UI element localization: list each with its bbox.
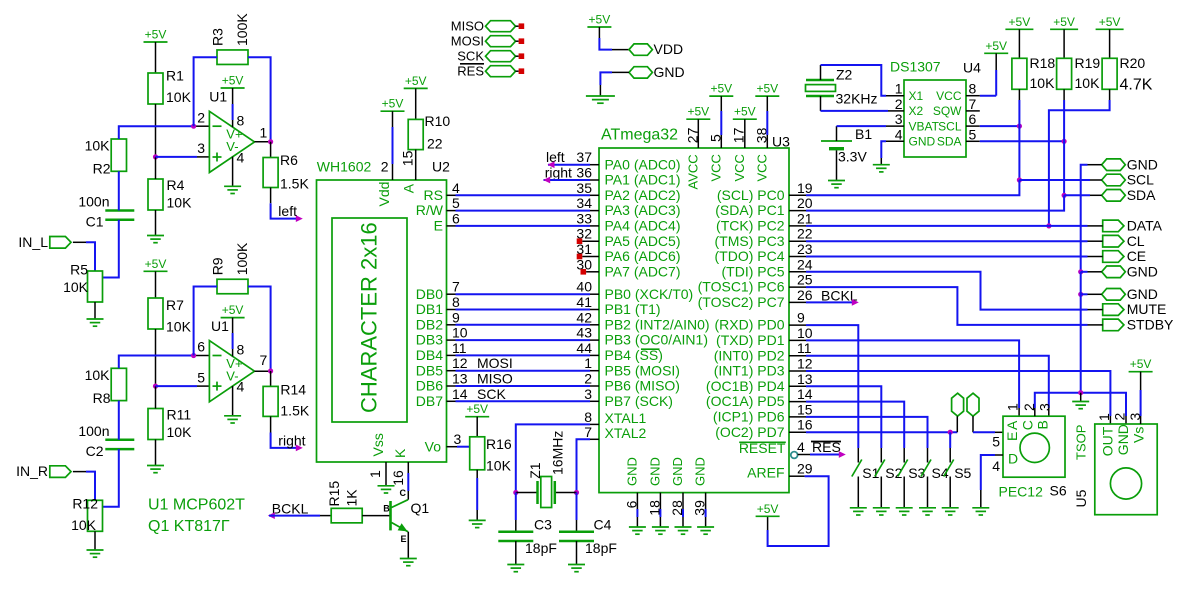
svg-text:OUT: OUT	[1100, 426, 1116, 456]
svg-text:9: 9	[797, 310, 805, 326]
svg-text:E: E	[434, 218, 443, 234]
wire R3 left lead	[194, 57, 217, 126]
svg-text:10K: 10K	[71, 517, 97, 533]
power +5V	[1050, 28, 1078, 30]
svg-text:+5V: +5V	[382, 97, 404, 111]
svg-text:R4: R4	[167, 177, 185, 193]
svg-text:PA0 (ADC0): PA0 (ADC0)	[605, 156, 681, 172]
svg-text:D: D	[1008, 451, 1018, 467]
resistor R7	[148, 298, 163, 329]
svg-text:Z2: Z2	[836, 67, 853, 83]
connector GND	[1102, 266, 1126, 278]
wire pin4 to ground	[232, 157, 234, 187]
junction	[1078, 269, 1083, 274]
svg-text:Q1: Q1	[411, 500, 430, 516]
IC U2 WH1602 LCD box	[317, 180, 447, 462]
svg-text:2: 2	[381, 158, 389, 174]
wire SCL	[1019, 179, 1090, 181]
svg-text:GND: GND	[624, 457, 639, 486]
svg-text:1K: 1K	[344, 489, 360, 507]
wire PD0 to S1	[789, 324, 806, 326]
wire PC0 to SCL net	[789, 194, 806, 196]
wire R9 left lead	[194, 287, 217, 356]
svg-text:1: 1	[584, 355, 592, 371]
svg-text:35: 35	[576, 180, 592, 196]
svg-text:14: 14	[452, 386, 468, 402]
svg-text:+5V: +5V	[589, 13, 611, 27]
wire op-amp output	[255, 141, 271, 143]
wire +5V to VDD	[598, 27, 600, 38]
power +5V	[755, 95, 779, 97]
op-amp U1 (A)	[209, 111, 254, 172]
wire +5V to R10	[415, 88, 417, 119]
svg-text:24: 24	[797, 256, 813, 272]
ground	[507, 564, 524, 566]
svg-text:CL: CL	[1127, 233, 1145, 249]
svg-text:C: C	[1020, 420, 1036, 430]
no-connect terminal	[581, 269, 587, 275]
wire PD7 to S5 and jumper	[789, 431, 806, 433]
wire C3 to ground	[515, 541, 517, 565]
power +5V	[144, 270, 168, 272]
wire V+ supply	[232, 88, 234, 104]
capacitor C2	[105, 439, 134, 442]
resistor R16	[470, 437, 485, 470]
svg-text:U1: U1	[209, 89, 227, 105]
svg-text:PB7 (SCK): PB7 (SCK)	[605, 393, 673, 409]
wire Vo to R16	[447, 446, 458, 448]
wire output to R6	[270, 142, 272, 158]
ground	[850, 507, 867, 509]
svg-text:10K: 10K	[85, 138, 111, 154]
wire PC4 to CE	[789, 256, 806, 258]
wire	[956, 416, 958, 432]
svg-text:RS: RS	[424, 187, 443, 203]
svg-text:13: 13	[797, 371, 813, 387]
wire	[447, 309, 456, 311]
wire output to R14	[270, 371, 272, 386]
svg-text:9: 9	[452, 309, 460, 325]
svg-text:8: 8	[584, 409, 592, 425]
svg-text:4: 4	[992, 458, 1000, 474]
svg-text:R6: R6	[280, 152, 298, 168]
op-amp U1 (B)	[209, 341, 254, 402]
wire ground net vertical	[1080, 272, 1082, 393]
svg-text:4: 4	[237, 378, 245, 394]
svg-text:5: 5	[992, 433, 1000, 449]
battery B1	[821, 140, 852, 142]
svg-text:22: 22	[797, 226, 813, 242]
svg-text:SDA: SDA	[1127, 187, 1156, 203]
connector MISO	[486, 21, 516, 32]
wire GND to ground	[612, 71, 629, 73]
svg-text:3: 3	[584, 386, 592, 402]
svg-text:DB4: DB4	[416, 347, 443, 363]
switch S4	[927, 448, 929, 463]
svg-text:R12: R12	[72, 496, 98, 512]
svg-text:SCK: SCK	[477, 386, 506, 402]
svg-text:DB5: DB5	[416, 362, 443, 378]
resistor R8	[111, 368, 126, 400]
wire IN_L to R5	[73, 241, 86, 243]
wire DS1307 GND pin to ground	[886, 140, 904, 142]
svg-text:(SCL) PC0: (SCL) PC0	[717, 187, 785, 203]
resistor R18	[1012, 58, 1027, 89]
svg-text:21: 21	[797, 210, 813, 226]
svg-text:TSOP: TSOP	[1074, 425, 1089, 460]
resistor R9	[217, 279, 248, 294]
svg-text:C: C	[400, 488, 407, 498]
wire R18 to SCL net	[1018, 89, 1020, 100]
svg-text:100K: 100K	[234, 13, 250, 46]
wire R14 to right label	[270, 416, 272, 432]
ground	[224, 415, 241, 417]
svg-text:PA2 (ADC2): PA2 (ADC2)	[605, 187, 681, 203]
wire VCC supply	[766, 96, 768, 111]
ground	[942, 507, 959, 509]
svg-text:PB1 (T1): PB1 (T1)	[605, 301, 661, 317]
wire ground stub	[1080, 393, 1082, 402]
wire PC1 to SDA net	[789, 210, 806, 212]
resistor R19	[1057, 58, 1072, 89]
svg-text:GND: GND	[670, 457, 685, 486]
wire PC3 to CL	[789, 240, 806, 242]
svg-text:E: E	[401, 534, 407, 544]
capacitor C1	[105, 209, 134, 212]
svg-text:+5V: +5V	[1009, 15, 1031, 29]
svg-text:K: K	[392, 448, 408, 458]
svg-text:RES: RES	[457, 64, 484, 79]
svg-text:8: 8	[237, 112, 245, 128]
switch S5	[949, 448, 951, 463]
svg-text:7: 7	[452, 279, 460, 295]
wire pin2 stub	[196, 125, 209, 127]
svg-text:DS1307: DS1307	[890, 59, 941, 75]
power +5V	[144, 41, 168, 43]
svg-text:(INT0) PD2: (INT0) PD2	[714, 347, 785, 363]
connector SCL	[1102, 174, 1126, 186]
svg-text:R16: R16	[486, 436, 512, 452]
wire SCL pin	[966, 125, 980, 127]
svg-text:DB3: DB3	[416, 332, 443, 348]
svg-text:IN_L: IN_L	[18, 234, 48, 250]
junction	[948, 430, 953, 435]
wire C2 to R12 node	[103, 449, 119, 507]
connector jumper	[967, 393, 979, 416]
svg-text:1: 1	[260, 124, 268, 140]
svg-text:C2: C2	[86, 443, 104, 459]
svg-text:GND: GND	[693, 457, 708, 486]
wire R4 to ground	[155, 210, 157, 236]
svg-text:5: 5	[452, 195, 460, 211]
svg-text:29: 29	[797, 461, 813, 477]
svg-text:Vs: Vs	[1131, 427, 1147, 443]
wire R8 to C2	[118, 401, 120, 440]
resistor R3	[217, 50, 248, 64]
wire op-amp output	[255, 370, 271, 372]
switch S2	[880, 448, 882, 463]
svg-text:AREF: AREF	[747, 465, 784, 481]
power +5V	[1129, 371, 1153, 373]
wire GND to ground net	[1088, 164, 1102, 166]
svg-text:GND: GND	[647, 457, 662, 486]
wire C4 to ground	[576, 541, 578, 565]
wire R8 to op-amp pin6	[119, 356, 196, 369]
svg-text:R1: R1	[166, 68, 184, 84]
junction	[153, 154, 158, 159]
wire PC5 to MUTE	[789, 271, 806, 273]
svg-text:(TXD) PD1: (TXD) PD1	[716, 332, 785, 348]
svg-text:PA5 (ADC5): PA5 (ADC5)	[605, 233, 681, 249]
svg-text:37: 37	[576, 149, 592, 165]
svg-text:34: 34	[576, 195, 592, 211]
svg-text:10K: 10K	[1075, 75, 1101, 91]
svg-text:15: 15	[797, 401, 813, 417]
svg-text:GND: GND	[1127, 156, 1158, 172]
svg-text:A: A	[1004, 420, 1020, 430]
svg-text:SCL: SCL	[1127, 172, 1154, 188]
wire R9 right lead	[248, 287, 271, 372]
svg-text:DB1: DB1	[416, 301, 443, 317]
svg-text:14: 14	[797, 386, 813, 402]
svg-text:SCK: SCK	[457, 49, 484, 64]
svg-text:MOSI: MOSI	[451, 34, 484, 49]
svg-text:100n: 100n	[78, 194, 109, 210]
ground	[652, 526, 669, 528]
junction	[1062, 139, 1067, 144]
svg-text:3: 3	[1037, 403, 1053, 411]
net-label arrow	[543, 177, 550, 184]
svg-text:32KHz: 32KHz	[836, 91, 878, 107]
net-label arrow	[268, 512, 275, 519]
svg-text:+5V: +5V	[405, 74, 427, 88]
svg-text:VCC: VCC	[732, 154, 747, 181]
svg-text:+5V: +5V	[466, 402, 488, 416]
svg-text:12: 12	[452, 355, 468, 371]
resistor R20	[1102, 58, 1117, 89]
wire node3 to op-amp pin3	[156, 156, 198, 158]
wire R19 to SDA net	[1063, 89, 1065, 100]
svg-text:(OC1B) PD4: (OC1B) PD4	[706, 378, 785, 394]
connector RES	[486, 66, 516, 77]
wire BCKL to R15	[269, 515, 320, 517]
wire	[155, 42, 157, 73]
junction	[268, 139, 273, 144]
wire	[516, 25, 519, 27]
svg-text:(RXD) PD0: (RXD) PD0	[714, 317, 784, 333]
svg-text:PA6 (ADC6): PA6 (ADC6)	[605, 248, 681, 264]
power +5V	[221, 87, 245, 89]
svg-text:11: 11	[452, 340, 467, 356]
wire SDA	[1064, 194, 1090, 196]
wire R3 right lead	[248, 57, 271, 142]
svg-text:DATA: DATA	[1127, 218, 1163, 234]
svg-text:SCL: SCL	[938, 119, 962, 133]
wire	[447, 354, 456, 356]
svg-text:U1 MCP602T: U1 MCP602T	[148, 497, 245, 514]
svg-text:R18: R18	[1030, 55, 1056, 71]
svg-text:19: 19	[797, 180, 813, 196]
svg-text:R8: R8	[93, 390, 111, 406]
svg-text:U5: U5	[1073, 489, 1089, 507]
no-connect terminal	[519, 53, 525, 59]
ground	[697, 526, 714, 528]
no-connect terminal	[519, 68, 525, 74]
wire GND pin to ground	[682, 493, 684, 509]
svg-text:1: 1	[895, 81, 903, 97]
ground	[224, 185, 241, 187]
wire C1 to R5 node	[103, 220, 119, 278]
svg-text:4: 4	[452, 180, 460, 196]
connector GND	[1102, 159, 1126, 171]
svg-text:3: 3	[895, 111, 903, 127]
wire	[447, 370, 456, 372]
junction	[1017, 124, 1022, 129]
svg-text:MISO: MISO	[451, 19, 484, 34]
power +5V	[221, 317, 245, 319]
svg-text:VDD: VDD	[654, 41, 684, 57]
svg-text:16MHz: 16MHz	[550, 431, 566, 475]
resistor R4	[148, 179, 163, 210]
svg-text:U2: U2	[432, 159, 450, 175]
svg-text:+5V: +5V	[145, 28, 167, 42]
wire AVCC supply	[697, 119, 699, 148]
wire S5 drop	[949, 432, 951, 448]
no-connect terminal	[519, 23, 525, 29]
svg-text:PA1 (ADC1): PA1 (ADC1)	[605, 172, 681, 188]
svg-text:PA3 (ADC3): PA3 (ADC3)	[605, 202, 681, 218]
svg-text:10K: 10K	[166, 318, 192, 334]
no-connect terminal	[519, 38, 525, 44]
net-label arrow	[296, 445, 303, 452]
svg-text:+5V: +5V	[222, 74, 244, 88]
svg-text:1.5K: 1.5K	[280, 176, 309, 192]
wire +5V to DS1307 VCC	[995, 53, 997, 70]
IC U4 DS1307 box	[904, 80, 966, 157]
power +5V	[709, 95, 733, 97]
power +5V	[381, 110, 405, 112]
wire	[582, 256, 599, 258]
junction	[1046, 223, 1051, 228]
wire IN_R to R12	[73, 471, 86, 473]
overline RESET	[739, 441, 786, 443]
svg-text:SDA: SDA	[937, 135, 962, 149]
crystal Z1	[516, 492, 538, 494]
svg-text:13: 13	[452, 371, 468, 387]
wire R2 to op-amp pin2	[119, 126, 196, 139]
svg-text:A: A	[401, 183, 417, 193]
connector MUTE	[1103, 304, 1124, 316]
wire +5V to TSOP Vs	[1140, 372, 1142, 390]
svg-text:5: 5	[197, 369, 205, 385]
wire PC7 BCKL	[789, 301, 806, 303]
junction	[268, 368, 273, 373]
wire R11 to ground	[155, 440, 157, 466]
svg-text:PB5 (MOSI): PB5 (MOSI)	[605, 362, 680, 378]
svg-text:Vo: Vo	[425, 438, 442, 454]
svg-text:SQW: SQW	[933, 104, 962, 118]
svg-text:AVCC: AVCC	[686, 154, 701, 189]
junction	[1062, 193, 1067, 198]
wire	[447, 385, 456, 387]
wire emitter to ground	[407, 532, 409, 559]
wire	[447, 293, 456, 295]
svg-text:R9: R9	[210, 257, 226, 275]
wire Z1 to C3	[515, 493, 517, 521]
svg-text:C4: C4	[594, 517, 612, 533]
svg-text:+5V: +5V	[145, 257, 167, 271]
svg-text:1: 1	[367, 470, 383, 478]
svg-text:R/W: R/W	[416, 202, 444, 218]
svg-text:7: 7	[260, 352, 268, 368]
svg-text:E: E	[1004, 432, 1020, 441]
wire PD1 to PEC12 pin1	[789, 339, 806, 341]
svg-text:STDBY: STDBY	[1127, 317, 1174, 333]
svg-text:(SDA) PC1: (SDA) PC1	[715, 202, 784, 218]
wire PEC12 pin2 common	[1034, 408, 1036, 416]
wire V+ supply	[232, 318, 234, 333]
svg-text:PA7 (ADC7): PA7 (ADC7)	[605, 263, 681, 279]
rotary encoder S6 PEC12 box	[1003, 416, 1065, 477]
no-connect terminal	[577, 238, 583, 244]
wire	[544, 179, 591, 181]
wire +5V to R16	[476, 417, 478, 437]
ground	[400, 558, 417, 560]
svg-text:PB0 (XCK/T0): PB0 (XCK/T0)	[605, 286, 694, 302]
svg-text:+5V: +5V	[1099, 15, 1121, 29]
svg-text:100K: 100K	[234, 242, 250, 275]
connector GND	[1102, 289, 1126, 301]
power +5V	[733, 118, 757, 120]
ground	[873, 164, 890, 166]
wire SDA pin	[966, 140, 980, 142]
crystal Z2	[806, 79, 834, 82]
wire XTAL1	[590, 423, 599, 425]
wire	[1081, 271, 1088, 273]
wire R11 top lead	[155, 386, 157, 408]
svg-text:10K: 10K	[63, 279, 89, 295]
svg-text:S5: S5	[954, 465, 971, 481]
junction	[513, 490, 518, 495]
svg-text:1: 1	[1096, 413, 1112, 421]
junction	[1017, 177, 1022, 182]
svg-text:3: 3	[197, 140, 205, 156]
connector DATA	[1103, 220, 1124, 232]
svg-text:+5V: +5V	[756, 82, 778, 96]
svg-text:R20: R20	[1120, 55, 1146, 71]
wire	[548, 164, 590, 166]
power +5V	[465, 416, 489, 418]
wire Z2 to X1	[820, 65, 822, 80]
ground	[469, 519, 486, 521]
IR receiver U5 TSOP box	[1095, 424, 1157, 515]
svg-text:(OC1A) PD5: (OC1A) PD5	[706, 393, 785, 409]
svg-text:10: 10	[797, 325, 813, 341]
svg-text:B: B	[1035, 420, 1051, 429]
encoder shaft circle	[1020, 433, 1049, 462]
svg-text:10K: 10K	[167, 195, 193, 211]
connector IN_R	[50, 466, 71, 478]
wire	[1063, 29, 1065, 58]
svg-text:(ICP1) PD6: (ICP1) PD6	[713, 409, 785, 425]
svg-text:PA4 (ADC4): PA4 (ADC4)	[605, 218, 681, 234]
ground	[629, 526, 646, 528]
wire GND pin to ground	[705, 493, 707, 509]
svg-text:VCC: VCC	[936, 89, 962, 103]
svg-text:4: 4	[237, 149, 245, 165]
wire K to Q1 collector	[407, 462, 409, 473]
svg-text:8: 8	[237, 342, 245, 358]
